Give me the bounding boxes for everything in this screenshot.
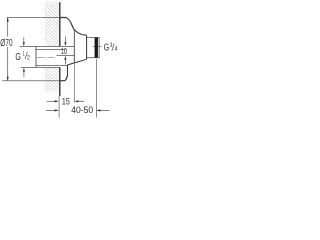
dim 40-50 right arrow	[96, 109, 100, 111]
rosette bell bottom ledge	[60, 75, 68, 80]
wall face extension line to bottom dims	[58, 96, 60, 118]
pipe centerline dash-dot	[37, 57, 56, 59]
10 arrow down	[64, 42, 66, 46]
dim 15 right arrow	[74, 100, 78, 102]
dimension line Ø70 upper segment	[7, 18, 9, 37]
G1/2 leader arrow up	[23, 68, 25, 72]
G1/2 pipe crest bottom line	[21, 66, 60, 68]
svg-text:40-50: 40-50	[71, 105, 93, 115]
rosette bell top profile	[60, 18, 74, 30]
rosette front rim edge	[73, 30, 75, 63]
G1/2 pipe end face	[35, 47, 37, 68]
wall face line upper	[59, 2, 61, 46]
union body bottom edge	[68, 59, 87, 65]
svg-text:10: 10	[61, 46, 68, 56]
union body top curve	[74, 30, 86, 36]
dim 15 left arrow	[47, 100, 55, 102]
nut dark face bar	[95, 38, 98, 58]
dim 40-50 left arrow	[46, 109, 55, 111]
dimension line Ø70 lower segment	[7, 47, 9, 81]
svg-text:15: 15	[62, 97, 70, 107]
dim ext line top (rosette top tangent)	[7, 17, 60, 19]
svg-text:Ø70: Ø70	[0, 38, 13, 49]
arrow down (Ø70 bottom)	[7, 77, 9, 81]
nut outline	[87, 37, 100, 57]
G1/2 pipe root bottom line	[36, 64, 67, 66]
G1/2 leader arrow down	[23, 42, 25, 46]
40-50 right extension line	[95, 59, 97, 118]
wall face line lower	[59, 67, 61, 96]
wall hatching lower band	[45, 68, 60, 92]
arrow up (Ø70 top)	[7, 17, 9, 21]
union body front face	[86, 35, 88, 59]
15-dim right extension line	[73, 62, 75, 102]
G1/2 pipe crest top line + 10-dim extension	[20, 46, 75, 48]
svg-text:G: G	[104, 42, 110, 53]
outlet centerline tick	[93, 45, 102, 47]
G1/2 pipe root top line	[36, 48, 65, 50]
10 arrow up	[64, 56, 66, 60]
svg-text:G: G	[15, 52, 21, 63]
rosette bottom rim edge	[67, 65, 69, 76]
10-dim lower extension line	[57, 55, 75, 57]
wall hatching upper band	[45, 2, 60, 46]
dim ext line bottom (rosette bottom tangent)	[2, 80, 60, 82]
